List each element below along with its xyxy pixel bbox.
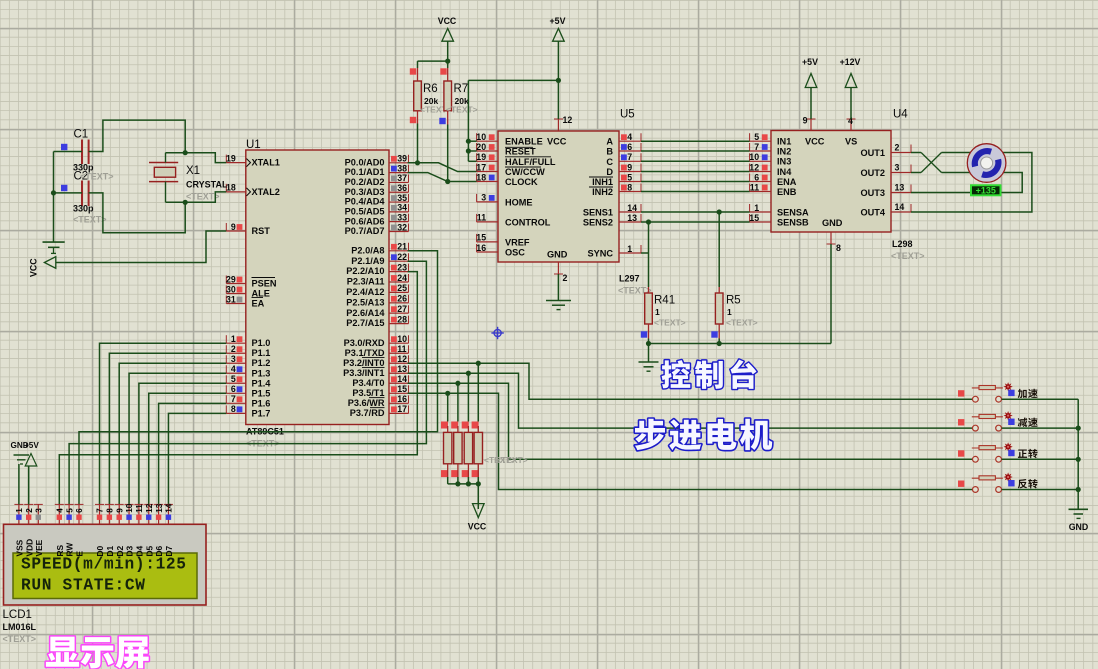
caption 步进电机 (stepper motor)	[635, 419, 772, 451]
wire P0.0 net: pullup R6, to U5 CW/CCW	[408, 111, 477, 172]
svg-text:ENB: ENB	[777, 187, 797, 197]
svg-text:12: 12	[145, 503, 154, 513]
U5 bottom pin 2 (GND)	[554, 262, 568, 283]
svg-text:C: C	[606, 157, 613, 167]
power +5V (LCD VDD)	[24, 441, 39, 504]
wire button 减速 to GND bus	[1002, 427, 1079, 429]
op-amp U1 body (AT89C51 microcontroller)	[246, 139, 389, 449]
LCD1 LM016L display	[3, 524, 207, 644]
wire RST to VCC	[56, 231, 227, 263]
svg-text:10: 10	[476, 132, 486, 142]
wire button 反转 to GND bus	[1002, 489, 1079, 491]
svg-text:P1.3: P1.3	[252, 368, 271, 378]
svg-text:+5V: +5V	[802, 57, 818, 67]
power VCC (down arrow below resistor pack)	[468, 504, 487, 532]
svg-text:P0.0/AD0: P0.0/AD0	[345, 157, 385, 167]
label 正转	[1018, 449, 1038, 458]
U4 top pins 9 (VCC) and 4 (VS)	[803, 116, 856, 131]
svg-text:VCC: VCC	[547, 137, 567, 147]
ground GND (buttons)	[1069, 509, 1089, 532]
svg-text:SENSB: SENSB	[777, 217, 809, 227]
wires P1.0-P1.7 to LCD D0-D7	[100, 343, 227, 504]
svg-text:18: 18	[476, 172, 486, 182]
svg-text:A: A	[606, 137, 613, 147]
junction ENABLE node	[466, 139, 471, 144]
svg-text:19: 19	[476, 152, 486, 162]
svg-text:10: 10	[397, 334, 407, 344]
svg-text:R41: R41	[654, 295, 675, 307]
svg-text:<TEXT>: <TEXT>	[891, 251, 925, 261]
svg-text:7: 7	[96, 508, 105, 513]
svg-text:3: 3	[231, 354, 236, 364]
svg-text:5: 5	[65, 508, 74, 513]
U1 right pins P0.0/AD0-P0.7/AD7 (39-32)	[345, 154, 409, 236]
svg-text:24: 24	[397, 273, 407, 283]
capacitor C2 state square	[61, 185, 67, 191]
R41 state square	[641, 331, 647, 337]
U4 bottom pin 8 (GND)	[827, 232, 842, 253]
op-amp U4 body (L298 driver)	[771, 109, 925, 262]
svg-text:33: 33	[397, 212, 407, 222]
svg-text:RST: RST	[252, 226, 271, 236]
svg-text:P3.1/TXD: P3.1/TXD	[345, 348, 385, 358]
wire U4 GND pin 8 to ground bus	[830, 244, 832, 344]
svg-text:19: 19	[226, 153, 236, 163]
push button 加速	[972, 382, 1013, 402]
svg-text:OUT4: OUT4	[860, 207, 885, 217]
svg-text:2: 2	[895, 143, 900, 153]
wire button 正转 to GND bus	[1002, 458, 1079, 460]
crystal X1	[149, 153, 228, 203]
svg-text:6: 6	[75, 508, 84, 513]
svg-text:34: 34	[397, 203, 407, 213]
svg-text:P2.6/A14: P2.6/A14	[346, 308, 385, 318]
svg-text:VCC: VCC	[29, 258, 39, 277]
wire P3.5 down to pull-up resistor	[447, 393, 449, 421]
svg-text:U5: U5	[620, 109, 635, 121]
svg-text:D7: D7	[164, 545, 174, 556]
svg-text:11: 11	[135, 504, 144, 513]
svg-text:<TEXT>: <TEXT>	[654, 318, 686, 328]
motor (stepper)	[967, 144, 1006, 183]
svg-text:15: 15	[476, 233, 486, 243]
svg-text:8: 8	[627, 182, 632, 192]
svg-text:13: 13	[155, 503, 164, 513]
junction P3.5 pull-up	[445, 391, 450, 396]
svg-text:CLOCK: CLOCK	[505, 177, 538, 187]
svg-text:P0.4/AD4: P0.4/AD4	[345, 197, 386, 207]
power +5V (above U5)	[550, 16, 566, 41]
svg-text:RESET: RESET	[505, 147, 536, 157]
svg-text:C1: C1	[74, 129, 89, 141]
power +12V (above U4 VS)	[840, 57, 861, 119]
svg-text:<TEXT>: <TEXT>	[726, 318, 758, 328]
junction P3.3 pull-up	[466, 371, 471, 376]
push button 反转	[972, 472, 1013, 492]
svg-text:P0.1/AD1: P0.1/AD1	[345, 167, 385, 177]
svg-text:CRYSTAL: CRYSTAL	[186, 180, 228, 190]
svg-text:IN2: IN2	[777, 146, 791, 156]
svg-text:VSS: VSS	[15, 539, 25, 556]
wire SENS1 to SENSA	[641, 211, 750, 213]
U1 left pins: XTAL1(19) XTAL2(18) RST(9) PSEN(29) ALE(30) EA(31)	[226, 153, 280, 308]
capacitor C1 state square	[61, 144, 67, 150]
wire SENS2 node down to R41, SYNC joins	[641, 222, 649, 293]
svg-text:+135: +135	[976, 186, 996, 196]
power VCC (above R6/R7)	[438, 16, 457, 41]
svg-text:21: 21	[397, 242, 407, 252]
svg-text:17: 17	[397, 404, 407, 414]
svg-text:VDD: VDD	[24, 539, 34, 557]
wire +5V branch to ENABLE/RESET/HALF-FULL	[468, 80, 558, 161]
wire SENS1 node down to R5	[718, 212, 720, 287]
resistor R7 20k	[444, 81, 478, 115]
svg-text:D4: D4	[135, 545, 145, 556]
svg-text:23: 23	[397, 262, 407, 272]
svg-text:20: 20	[476, 142, 486, 152]
svg-text:VS: VS	[845, 137, 857, 147]
svg-text:P0.5/AD5: P0.5/AD5	[345, 206, 385, 216]
wires U5 A,B,C,D,INH1,INH2 to U4 IN1-IN4,ENA,ENB	[641, 141, 750, 191]
junction P0.1/R7	[445, 179, 450, 184]
svg-text:VCC: VCC	[805, 137, 825, 147]
push button 正转	[972, 442, 1013, 462]
svg-text:LCD1: LCD1	[3, 609, 32, 621]
svg-text:2: 2	[563, 273, 568, 283]
junction RESET node	[466, 148, 471, 153]
svg-text:P3.6/WR: P3.6/WR	[348, 398, 385, 408]
svg-text:14: 14	[627, 203, 637, 213]
svg-text:3: 3	[481, 193, 486, 203]
wire OUT1/OUT2 crossover to motor	[911, 153, 971, 173]
U1 left pins P1.0-P1.7 (1-8)	[226, 334, 271, 418]
wire P3.2 down to pull-up resistor	[477, 363, 479, 421]
svg-text:P3.5/T1: P3.5/T1	[352, 388, 384, 398]
svg-text:PSEN: PSEN	[252, 279, 277, 289]
U4 left pins 5,7,10,12,6,11,1,15	[749, 132, 771, 223]
svg-text:HALF/FULL: HALF/FULL	[505, 157, 556, 167]
svg-text:+12V: +12V	[840, 57, 861, 67]
junction R5 ground node	[717, 341, 722, 346]
svg-text:IN1: IN1	[777, 137, 791, 147]
svg-text:P1.2: P1.2	[252, 358, 271, 368]
svg-text:E: E	[75, 551, 85, 557]
svg-text:LM016L: LM016L	[3, 622, 37, 632]
svg-text:B: B	[606, 147, 613, 157]
svg-text:38: 38	[397, 163, 407, 173]
U1 right pins P2.0/A8-P2.7/A15 (21-28)	[346, 242, 408, 329]
wire SENS2 to SENSB	[641, 221, 750, 223]
wire VCC to R6/R7 tops	[418, 41, 448, 81]
svg-text:6: 6	[754, 172, 759, 182]
svg-text:R5: R5	[726, 295, 741, 307]
wire P2.0 to LCD E	[79, 251, 438, 505]
junction crystal bottom node	[183, 200, 188, 205]
svg-text:ENA: ENA	[777, 177, 797, 187]
svg-text:P3.4/T0: P3.4/T0	[352, 378, 384, 388]
svg-text:7: 7	[231, 394, 236, 404]
resistor R5 1	[715, 293, 757, 328]
svg-text:INH2: INH2	[592, 187, 613, 197]
svg-text:11: 11	[750, 182, 759, 192]
svg-text:GND: GND	[822, 218, 843, 228]
svg-text:<TEXT>: <TEXT>	[496, 455, 528, 465]
junction R41 ground node	[646, 341, 651, 346]
wire P2.1 to LCD RW	[69, 261, 426, 504]
wire button 加速 to GND bus	[1002, 398, 1079, 400]
svg-text:6: 6	[231, 384, 236, 394]
svg-text:SYNC: SYNC	[587, 249, 613, 259]
wire P3.3 down to pull-up resistor	[467, 373, 469, 421]
junction P3.4 pull-up	[455, 381, 460, 386]
svg-text:9: 9	[627, 162, 632, 172]
wire P3.2 net to button row	[408, 363, 973, 399]
svg-text:37: 37	[397, 173, 407, 183]
button 正转 state squares	[958, 450, 1015, 457]
svg-text:<TEXT>: <TEXT>	[80, 172, 114, 182]
svg-text:P0.2/AD2: P0.2/AD2	[345, 177, 385, 187]
svg-text:IN4: IN4	[777, 167, 792, 177]
svg-text:RUN STATE:CW: RUN STATE:CW	[21, 577, 145, 595]
svg-text:12: 12	[397, 354, 407, 364]
junctions resistor pack bottom bus	[455, 481, 481, 486]
svg-text:U4: U4	[893, 109, 908, 121]
svg-text:1: 1	[727, 307, 732, 317]
svg-text:IN3: IN3	[777, 157, 791, 167]
svg-text:SENSA: SENSA	[777, 207, 809, 217]
button 加速 state squares	[958, 390, 1015, 397]
junction crystal top node	[183, 150, 188, 155]
junction SENS2/R41	[646, 219, 651, 224]
svg-text:16: 16	[476, 243, 486, 253]
svg-text:VEE: VEE	[34, 539, 44, 556]
svg-text:EA: EA	[252, 299, 265, 309]
svg-text:D1: D1	[105, 545, 115, 556]
svg-text:D5: D5	[144, 545, 154, 556]
svg-text:D3: D3	[125, 545, 135, 556]
svg-text:8: 8	[231, 404, 236, 414]
svg-text:P2.0/A8: P2.0/A8	[351, 245, 384, 255]
svg-text:P1.0: P1.0	[252, 338, 271, 348]
svg-text:2: 2	[231, 344, 236, 354]
svg-text:1: 1	[15, 508, 24, 513]
svg-text:L298: L298	[892, 239, 913, 249]
button 减速 state squares	[958, 419, 1015, 426]
resistor R6 20k	[414, 81, 452, 115]
junction P0.0/R6	[415, 160, 420, 165]
U4 right pins OUT1(2) OUT2(3) OUT3(13) OUT4(14)	[891, 143, 911, 213]
junction SENS1/R5	[717, 209, 722, 214]
button 反转 state squares	[958, 480, 1015, 487]
svg-text:P1.5: P1.5	[252, 388, 271, 398]
svg-text:13: 13	[627, 213, 637, 223]
wire P0.1 net: pullup R7, to U5 CLOCK	[408, 111, 477, 182]
wire P3.3 net to button row	[408, 373, 973, 428]
svg-text:P1.1: P1.1	[252, 348, 271, 358]
caption 控制台 (control console)	[662, 360, 757, 389]
svg-text:15: 15	[397, 384, 407, 394]
svg-text:SPEED(m/min):125: SPEED(m/min):125	[21, 556, 186, 574]
svg-text:36: 36	[397, 183, 407, 193]
R6 state squares	[410, 68, 416, 123]
svg-text:P2.1/A9: P2.1/A9	[351, 256, 384, 266]
svg-text:P1.7: P1.7	[252, 408, 271, 418]
svg-text:16: 16	[397, 394, 407, 404]
svg-text:P3.2/INT0: P3.2/INT0	[343, 358, 384, 368]
svg-text:<TEXT>: <TEXT>	[3, 634, 37, 644]
svg-text:26: 26	[397, 294, 407, 304]
junctions button bus	[1076, 426, 1081, 493]
svg-text:28: 28	[397, 314, 407, 324]
svg-text:VREF: VREF	[505, 237, 530, 247]
svg-text:1: 1	[231, 334, 236, 344]
svg-text:13: 13	[397, 364, 407, 374]
svg-text:5: 5	[627, 172, 632, 182]
svg-text:3: 3	[35, 508, 44, 513]
svg-text:P0.7/AD7: P0.7/AD7	[345, 226, 385, 236]
svg-text:R6: R6	[423, 83, 438, 95]
svg-text:12: 12	[563, 115, 573, 125]
svg-text:XTAL2: XTAL2	[252, 187, 280, 197]
wire P2.2 to LCD RS	[59, 272, 417, 505]
svg-text:P2.3/A11: P2.3/A11	[347, 277, 385, 287]
svg-text:GND: GND	[1069, 522, 1089, 532]
svg-text:ALE: ALE	[252, 289, 270, 299]
R7 state squares	[439, 68, 446, 124]
svg-text:15: 15	[749, 213, 759, 223]
wire P3.5 net to button row	[408, 393, 973, 489]
svg-text:13: 13	[895, 183, 905, 193]
resistor pack RP1 (4 pull-up resistors)	[444, 432, 528, 465]
svg-text:9: 9	[803, 116, 808, 126]
wire C1/C2 left plates to ground	[54, 152, 83, 243]
svg-text:27: 27	[397, 304, 407, 314]
svg-text:31: 31	[226, 294, 236, 304]
power +5V (above U4)	[802, 57, 818, 119]
svg-text:14: 14	[397, 374, 407, 384]
svg-text:14: 14	[165, 503, 174, 513]
wire +5V to U5 VCC pin 12	[557, 41, 559, 119]
svg-text:<TEXT>: <TEXT>	[446, 105, 478, 115]
svg-text:R7: R7	[454, 83, 469, 95]
node marker (blue crosshair)	[491, 327, 503, 339]
svg-text:OUT3: OUT3	[860, 188, 885, 198]
svg-text:17: 17	[476, 162, 486, 172]
svg-text:9: 9	[231, 222, 236, 232]
svg-text:P2.7/A15: P2.7/A15	[346, 318, 384, 328]
svg-text:9: 9	[115, 508, 124, 513]
svg-text:5: 5	[231, 374, 236, 384]
wire motor right to OUT3	[911, 173, 1022, 193]
junction VCC/R7	[445, 59, 450, 64]
svg-text:P2.2/A10: P2.2/A10	[346, 266, 384, 276]
svg-text:4: 4	[56, 508, 65, 513]
svg-text:30: 30	[226, 284, 236, 294]
svg-text:12: 12	[749, 162, 759, 172]
U5 left pins 10,20,19,17,18,3,11,15,16	[476, 132, 498, 253]
svg-text:X1: X1	[186, 165, 200, 177]
U5 right pins 4,6,7,9,5,8,14,13,1	[619, 132, 641, 254]
svg-text:+5V: +5V	[24, 441, 39, 450]
svg-text:P3.7/RD: P3.7/RD	[350, 408, 385, 418]
U1 right pins P3.0-P3.7 (10-17)	[343, 334, 408, 418]
capacitor C2 330p	[73, 171, 114, 225]
wire R41/R5 bottoms to ground bus	[649, 324, 832, 362]
svg-text:OSC: OSC	[505, 248, 525, 258]
svg-text:HOME: HOME	[505, 197, 533, 207]
svg-text:6: 6	[627, 142, 632, 152]
svg-text:1: 1	[655, 307, 660, 317]
svg-text:D: D	[606, 167, 613, 177]
svg-text:SENS1: SENS1	[583, 207, 613, 217]
ground (below R41)	[639, 362, 659, 371]
label 反转	[1018, 479, 1038, 488]
wire XTAL1 net: crystal top to U1 pin 19 and C1	[89, 120, 227, 163]
svg-text:32: 32	[397, 222, 407, 232]
wire P3.4 net to button row	[408, 383, 973, 459]
svg-text:8: 8	[106, 508, 115, 513]
svg-text:4: 4	[231, 364, 236, 374]
svg-text:25: 25	[397, 283, 407, 293]
capacitor C1 330p	[73, 129, 94, 173]
svg-text:VCC: VCC	[438, 16, 457, 26]
svg-text:1: 1	[754, 203, 759, 213]
svg-text:VCC: VCC	[468, 522, 487, 532]
op-amp U5 body (L297 stepper controller)	[498, 109, 652, 296]
svg-text:11: 11	[477, 213, 486, 223]
svg-text:D0: D0	[95, 545, 105, 556]
junction P3.2 pull-up	[476, 361, 481, 366]
wire motor right to OUT4	[911, 153, 1032, 213]
LCD pins 1-14	[14, 503, 174, 556]
svg-text:ENABLE: ENABLE	[505, 137, 543, 147]
svg-text:SENS2: SENS2	[583, 217, 613, 227]
svg-text:<TEXT>: <TEXT>	[73, 215, 107, 225]
svg-text:P2.4/A12: P2.4/A12	[346, 287, 384, 297]
svg-text:10: 10	[125, 503, 134, 513]
svg-text:3: 3	[895, 163, 900, 173]
resistor R41 1	[645, 293, 686, 328]
R5 state square	[711, 331, 717, 337]
svg-text:1: 1	[627, 244, 632, 254]
ground (below U5 pin 2)	[546, 274, 571, 310]
svg-text:P1.4: P1.4	[252, 378, 272, 388]
svg-text:RW: RW	[65, 543, 75, 557]
motor digital readout +135	[971, 185, 1001, 195]
wire P3.4 down to pull-up resistor	[457, 383, 459, 421]
push button 减速	[972, 411, 1013, 431]
ground (below C1/C2)	[43, 242, 65, 253]
svg-text:INH1: INH1	[592, 177, 613, 187]
label 减速	[1018, 418, 1038, 427]
svg-text:P3.0/RXD: P3.0/RXD	[344, 338, 385, 348]
svg-text:P2.5/A13: P2.5/A13	[346, 297, 384, 307]
resistor pack state squares	[441, 422, 479, 478]
svg-text:<TEXT>: <TEXT>	[186, 192, 220, 202]
caption 显示屏 (display)	[46, 636, 149, 668]
svg-text:29: 29	[226, 274, 236, 284]
svg-text:35: 35	[397, 193, 407, 203]
svg-text:P1.6: P1.6	[252, 398, 271, 408]
U5 top pin 12 (VCC)	[554, 115, 572, 131]
svg-text:OUT2: OUT2	[860, 168, 885, 178]
power VCC (left arrow at RST)	[29, 257, 56, 277]
svg-text:4: 4	[627, 132, 632, 142]
svg-text:P0.6/AD6: P0.6/AD6	[345, 216, 385, 226]
label 加速	[1018, 389, 1038, 398]
svg-text:U1: U1	[246, 139, 261, 151]
svg-text:14: 14	[895, 202, 905, 212]
